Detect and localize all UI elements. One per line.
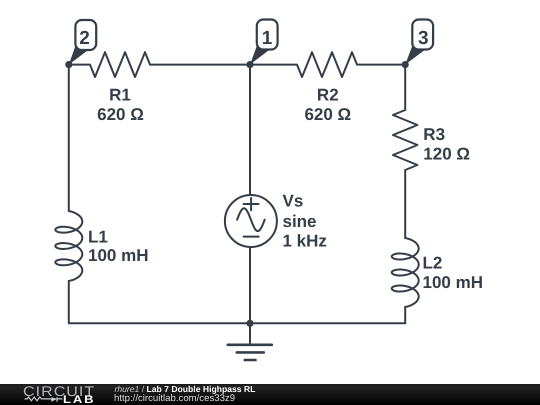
svg-text:R1: R1: [109, 86, 131, 105]
svg-text:sine: sine: [283, 212, 317, 231]
svg-text:3: 3: [418, 28, 429, 49]
svg-text:620 Ω: 620 Ω: [304, 105, 351, 124]
svg-text:Vs: Vs: [283, 192, 304, 211]
svg-text:L1: L1: [88, 228, 108, 247]
svg-text:1: 1: [262, 28, 273, 49]
svg-text:2: 2: [79, 28, 90, 49]
svg-text:R3: R3: [423, 125, 445, 144]
svg-text:120 Ω: 120 Ω: [423, 145, 470, 164]
svg-text:1 kHz: 1 kHz: [283, 232, 327, 251]
svg-text:620 Ω: 620 Ω: [97, 105, 144, 124]
svg-text:100 mH: 100 mH: [423, 273, 483, 292]
svg-text:100 mH: 100 mH: [88, 246, 148, 265]
svg-text:L2: L2: [423, 254, 443, 273]
svg-text:R2: R2: [317, 86, 339, 105]
